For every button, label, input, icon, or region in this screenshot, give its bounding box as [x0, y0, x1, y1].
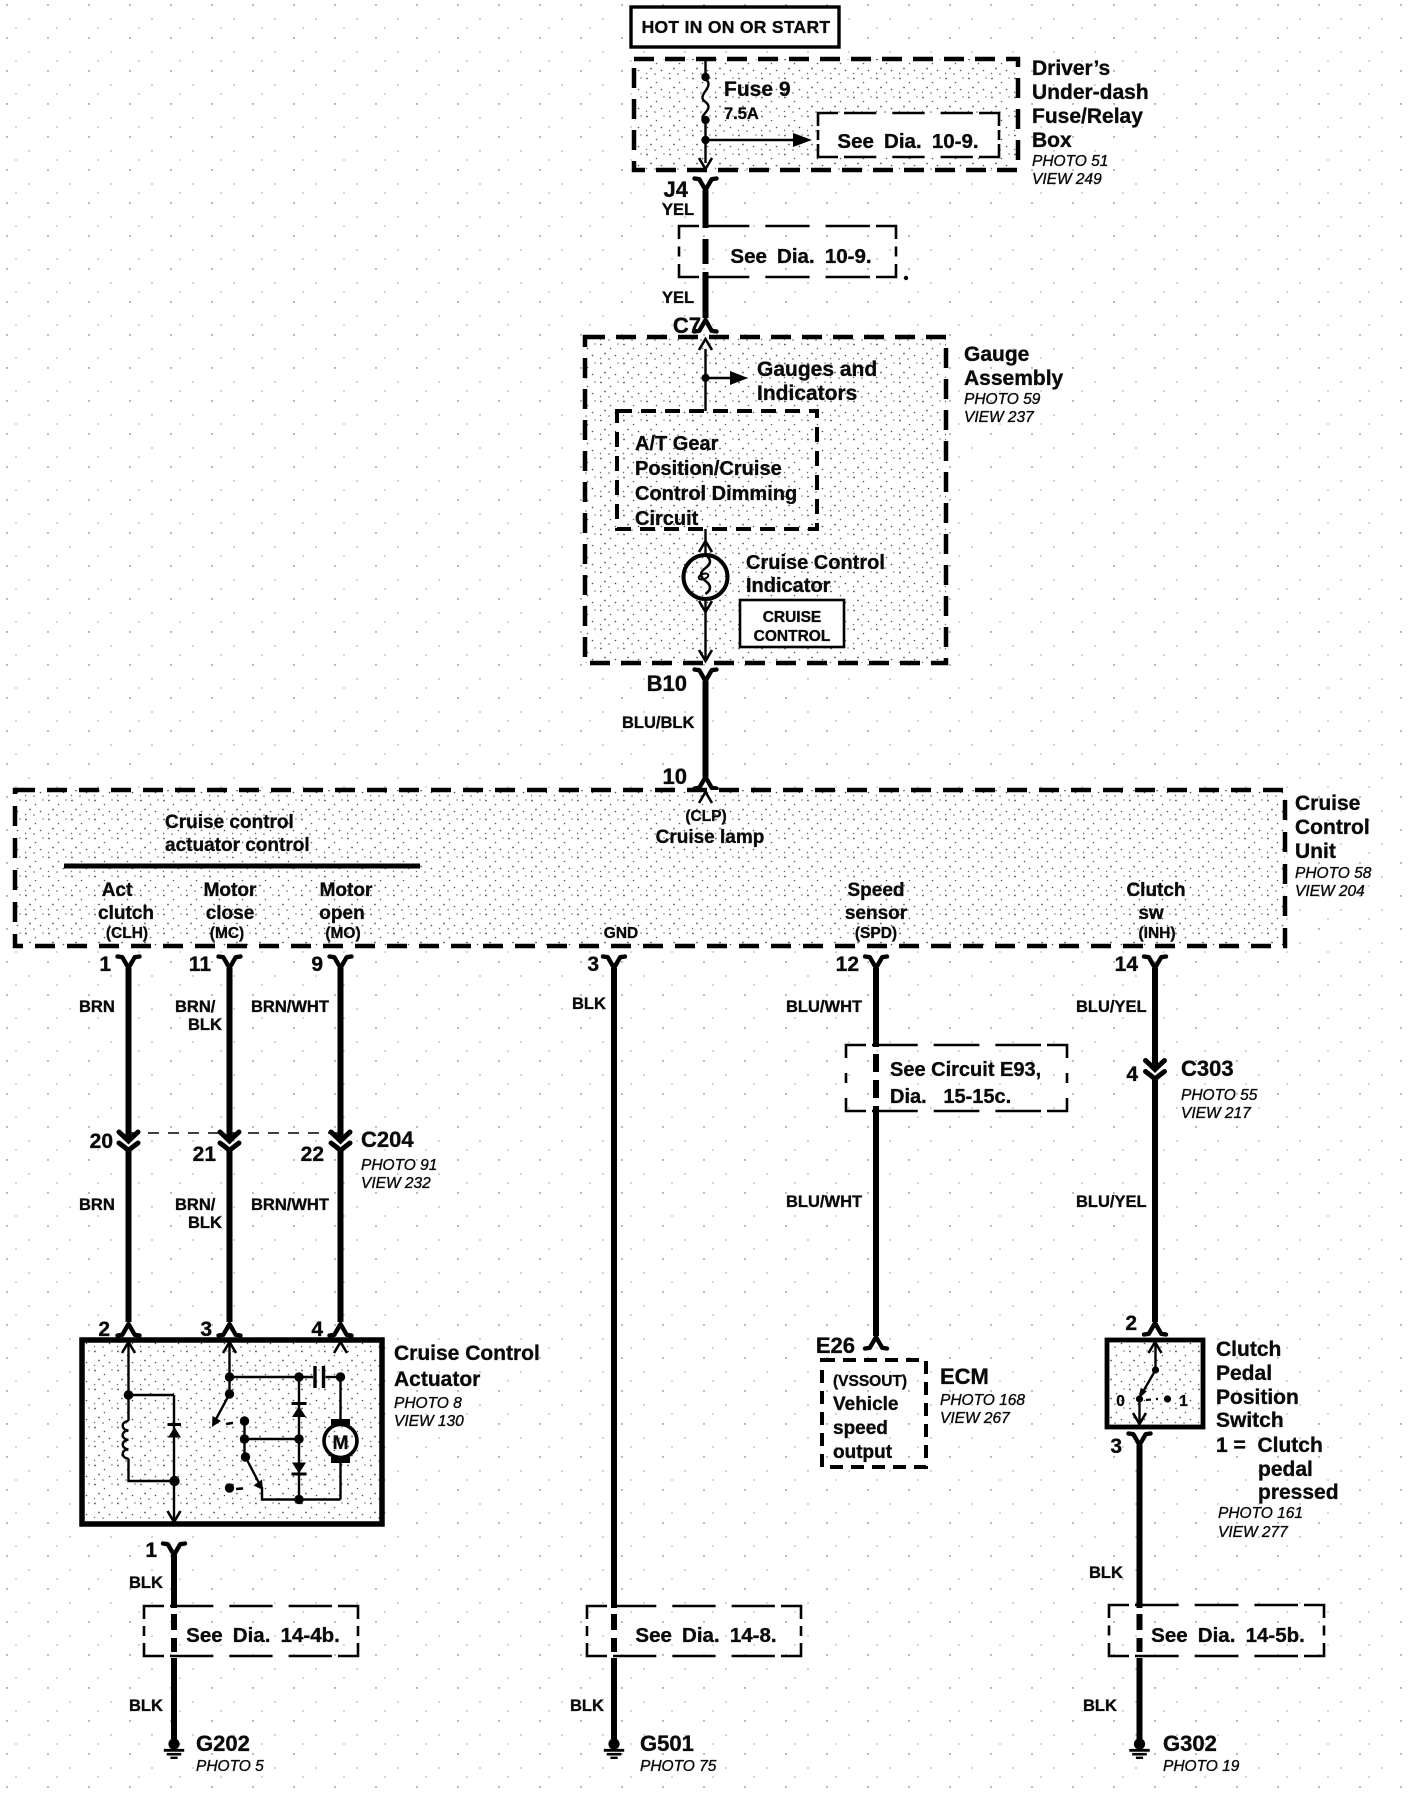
svg-text:Gauges and: Gauges and — [757, 358, 877, 381]
wire: top rail to capacitor — [230, 1376, 314, 1378]
svg-text:output: output — [833, 1442, 893, 1463]
svg-text:G501: G501 — [640, 1731, 694, 1756]
svg-text:Position/Cruise: Position/Cruise — [635, 458, 782, 480]
svg-text:J4: J4 — [664, 177, 689, 202]
svg-text:BLU/YEL: BLU/YEL — [1076, 998, 1147, 1016]
lamp: cruise control indicator — [684, 555, 728, 599]
wire: branch arrow to gauges — [706, 371, 749, 385]
wire: S2 to bottom rail — [262, 1487, 341, 1500]
svg-text:1: 1 — [99, 953, 111, 976]
connector C204 pin 22 — [301, 1132, 350, 1166]
connector pin 11 at CCU — [189, 953, 241, 976]
node: gauges branch — [702, 374, 710, 382]
label: Gauge Assembly PHOTO 59 VIEW 237 — [964, 343, 1064, 426]
node: diode branch top — [294, 1372, 303, 1381]
wire: entry arrow into gauge assembly — [699, 339, 712, 350]
svg-text:pressed: pressed — [1258, 1481, 1339, 1504]
svg-text:PHOTO 168: PHOTO 168 — [940, 1392, 1025, 1409]
label box: CRUISE CONTROL — [740, 600, 844, 647]
wire: actuator pin1 to G202 (BLK) — [171, 1555, 177, 1740]
wire: exit arrow from switch — [1133, 1413, 1146, 1424]
wire: fuse to branch — [704, 120, 706, 163]
svg-text:PHOTO 58: PHOTO 58 — [1295, 865, 1372, 882]
svg-text:See Dia. 14-4b.: See Dia. 14-4b. — [186, 1624, 340, 1647]
svg-text:See Dia. 14-5b.: See Dia. 14-5b. — [1151, 1624, 1305, 1647]
label: Clutch Pedal Position Switch — [1216, 1338, 1339, 1541]
svg-text:E26: E26 — [816, 1333, 855, 1358]
svg-text:VIEW 232: VIEW 232 — [361, 1175, 431, 1192]
svg-text:20: 20 — [90, 1130, 113, 1153]
svg-text:YEL: YEL — [662, 201, 694, 219]
svg-text:VIEW 249: VIEW 249 — [1032, 171, 1102, 188]
svg-text:PHOTO 19: PHOTO 19 — [1163, 1758, 1240, 1775]
svg-text:Box: Box — [1032, 129, 1072, 152]
connector B10 — [647, 670, 717, 697]
svg-text:(SPD): (SPD) — [855, 925, 897, 942]
svg-text:(CLH): (CLH) — [106, 925, 148, 942]
node: branch to see-dia — [701, 136, 709, 144]
svg-text:PHOTO 59: PHOTO 59 — [964, 391, 1041, 408]
svg-text:BLK: BLK — [1083, 1697, 1117, 1715]
connector actuator pin 3 — [200, 1318, 240, 1341]
svg-text:(CLP): (CLP) — [685, 808, 726, 825]
node: top rail at pin4 wire — [336, 1372, 345, 1381]
connector actuator pin 2 — [98, 1318, 139, 1341]
svg-text:Actuator: Actuator — [394, 1368, 480, 1391]
svg-text:Motor: Motor — [320, 880, 373, 901]
svg-text:Circuit: Circuit — [635, 508, 699, 530]
svg-text:HOT IN ON OR START: HOT IN ON OR START — [642, 17, 831, 37]
wire: coil bottom — [129, 1459, 175, 1482]
svg-text:Vehicle: Vehicle — [833, 1394, 899, 1415]
reference box: See Dia. 14-4b — [144, 1606, 358, 1656]
connector pin 3 at CCU — [587, 953, 625, 976]
svg-text:(MC): (MC) — [210, 925, 244, 942]
wire: J4 to C7 (YEL) — [703, 190, 709, 318]
label: Driver's Under-dash Fuse/Relay Box PHOTO 51 VIEW 249 — [1032, 57, 1149, 188]
node: mid rail left — [240, 1434, 249, 1443]
svg-text:BLU/WHT: BLU/WHT — [786, 1193, 862, 1211]
svg-text:YEL: YEL — [662, 289, 694, 307]
connector chevron above lamp — [699, 541, 712, 552]
svg-text:Position: Position — [1216, 1386, 1299, 1409]
wire: entry arrows into actuator — [122, 1342, 135, 1353]
svg-text:Cruise Control: Cruise Control — [394, 1342, 540, 1365]
connector pin 10 at CCU — [695, 777, 717, 789]
node: fuse top — [701, 73, 709, 81]
svg-text:BLK: BLK — [188, 1016, 222, 1034]
svg-text:C7: C7 — [673, 313, 701, 338]
svg-text:BLU/BLK: BLU/BLK — [622, 714, 694, 732]
wire: entry arrow into CCU — [699, 792, 712, 803]
wire: CCU pin3 to G501 (BLK) — [611, 968, 617, 1740]
svg-text:22: 22 — [301, 1143, 324, 1166]
svg-text:(INH): (INH) — [1138, 925, 1175, 942]
fuse F9 element — [702, 79, 708, 121]
wire: S1 contact down — [243, 1421, 245, 1457]
svg-text:Fuse/Relay: Fuse/Relay — [1032, 105, 1143, 128]
connector actuator pin 4 — [311, 1318, 351, 1341]
switch S1 (upper, hold) — [212, 1389, 249, 1427]
wire: exit arrow from gauge assembly — [699, 650, 712, 661]
connector C204 pin 21 — [193, 1132, 239, 1166]
svg-text:PHOTO 91: PHOTO 91 — [361, 1157, 437, 1174]
clutch pedal position switch box — [1107, 1340, 1203, 1427]
svg-text:7.5A: 7.5A — [724, 105, 759, 123]
svg-text:BLK: BLK — [129, 1697, 163, 1715]
wire: down to actuator pin1 — [173, 1480, 175, 1524]
diode D2 (up, on branch) — [292, 1377, 307, 1439]
wire: entry arrow into switch — [1149, 1342, 1162, 1353]
svg-text:VIEW 217: VIEW 217 — [1181, 1105, 1252, 1122]
svg-text:open: open — [319, 903, 364, 924]
label: ECM PHOTO 168 VIEW 267 — [940, 1364, 1025, 1427]
svg-text:Fuse 9: Fuse 9 — [724, 78, 791, 101]
gauge assembly box — [585, 337, 946, 663]
capacitor C1 — [315, 1366, 341, 1388]
label: Motor close (MC) — [204, 880, 257, 942]
connector C204 dashed separation line — [128, 1132, 352, 1134]
label: Cruise Control Indicator — [746, 552, 885, 597]
svg-text:21: 21 — [193, 1143, 217, 1166]
label: Fuse 9 7.5A — [724, 78, 791, 123]
svg-text:Indicators: Indicators — [757, 382, 857, 405]
svg-text:12: 12 — [836, 953, 859, 976]
label: BRN/BLK — [175, 1196, 222, 1232]
svg-text:Under-dash: Under-dash — [1032, 81, 1149, 104]
reference box: See Circuit E93 Dia 15-15c — [846, 1045, 1067, 1111]
ground G501 — [604, 1731, 717, 1775]
wire: switch pin3 to G302 (BLK) — [1137, 1445, 1143, 1740]
connector pin 14 at CCU — [1115, 953, 1166, 976]
svg-text:BRN/: BRN/ — [175, 998, 216, 1016]
node: pin3 branch — [225, 1372, 234, 1381]
svg-text:VIEW 237: VIEW 237 — [964, 409, 1035, 426]
svg-text:3: 3 — [587, 953, 599, 976]
wire: CCU pin12 to E26 (BLU/WHT) — [873, 968, 879, 1336]
svg-text:M: M — [333, 1433, 349, 1454]
wire: C204 pin20 to actuator pin2 (BRN) — [126, 1147, 132, 1322]
svg-text:VIEW 204: VIEW 204 — [1295, 883, 1365, 900]
wire: C204 pin21 to actuator pin3 (BRN/BLK) — [227, 1147, 233, 1322]
connector pin 12 at CCU — [836, 953, 887, 976]
wire: CCU pin9 to C204 pin22 (BRN/WHT) — [338, 968, 344, 1140]
wire: C303 to clutch switch pin2 (BLU/YEL) — [1152, 1076, 1158, 1323]
switch S2 (lower, release) — [225, 1452, 263, 1492]
label: Cruise Control Unit PHOTO 58 VIEW 204 — [1295, 792, 1372, 900]
svg-text:C204: C204 — [361, 1127, 414, 1152]
svg-text:BLU/WHT: BLU/WHT — [786, 998, 862, 1016]
svg-text:4: 4 — [1126, 1063, 1138, 1086]
wire: CCU pin1 to C204 pin20 (BRN) — [126, 968, 132, 1140]
connector C7 — [673, 313, 717, 338]
ECM box (VSSOUT vehicle speed output) — [822, 1360, 926, 1467]
connector chevron below lamp — [699, 601, 712, 612]
power label: HOT IN ON OR START — [631, 7, 839, 47]
wire: C7 to junction — [704, 349, 706, 411]
svg-text:Speed: Speed — [847, 880, 904, 901]
svg-text:Indicator: Indicator — [746, 575, 831, 597]
wire: CCU pin11 to C204 pin21 (BRN/BLK) — [227, 968, 233, 1140]
label: C204 PHOTO 91 VIEW 232 — [361, 1127, 437, 1192]
label: Act clutch (CLH) — [98, 880, 154, 942]
svg-text:BLK: BLK — [572, 995, 606, 1013]
label: Clutch sw (INH) — [1126, 880, 1185, 942]
fuse/relay box (Driver's Under-dash Fuse/Relay Box) — [634, 59, 1018, 170]
wire: HOT feed into fuse box — [704, 59, 706, 78]
svg-text:actuator control: actuator control — [165, 835, 310, 856]
wire: pin2 lead down — [127, 1340, 129, 1421]
svg-text:Motor: Motor — [204, 880, 257, 901]
connector E26 — [816, 1333, 887, 1358]
ground G302 — [1129, 1731, 1239, 1775]
wire: exit arrow from fuse box — [699, 158, 712, 169]
svg-text:BLK: BLK — [129, 1574, 163, 1592]
svg-text:Cruise control: Cruise control — [165, 812, 294, 833]
svg-text:Gauge: Gauge — [964, 343, 1029, 366]
svg-text:sw: sw — [1138, 903, 1164, 924]
wire: B10 to cruise control unit (BLU/BLK) — [703, 681, 709, 777]
svg-text:G302: G302 — [1163, 1731, 1217, 1756]
diode D3 (down, on branch) — [292, 1439, 307, 1500]
cruise control unit box — [15, 790, 1285, 946]
svg-text:BRN: BRN — [79, 1196, 115, 1214]
svg-text:A/T Gear: A/T Gear — [635, 433, 719, 455]
connector J4 — [664, 177, 717, 202]
svg-text:Pedal: Pedal — [1216, 1362, 1272, 1385]
svg-text:PHOTO 161: PHOTO 161 — [1218, 1505, 1303, 1522]
svg-text:BLK: BLK — [1089, 1564, 1123, 1582]
label: Cruise Control Actuator PHOTO 8 VIEW 130 — [394, 1342, 540, 1430]
reference box: See Dia. 10-9 (inside fuse box) — [818, 113, 999, 157]
svg-text:See Dia. 10-9.: See Dia. 10-9. — [837, 130, 978, 153]
wire: mid rail — [245, 1438, 300, 1440]
label: Gauges and Indicators — [757, 358, 877, 405]
cruise control actuator box — [82, 1340, 382, 1524]
svg-text:(VSSOUT): (VSSOUT) — [833, 1373, 907, 1390]
wire: dimming circuit to indicator lamp — [704, 529, 706, 555]
svg-text:Dia. 15-15c.: Dia. 15-15c. — [890, 1086, 1011, 1108]
svg-text:speed: speed — [833, 1418, 888, 1439]
switch S3 (clutch pedal position) — [1116, 1340, 1188, 1427]
node: coil top — [124, 1390, 134, 1400]
svg-text:CRUISE: CRUISE — [763, 609, 822, 626]
diode D1 (across coil) — [168, 1395, 182, 1480]
svg-text:Cruise lamp: Cruise lamp — [656, 827, 765, 848]
connector clutch switch pin 2 — [1125, 1312, 1166, 1335]
ground G202 — [164, 1731, 264, 1775]
svg-text:close: close — [206, 903, 255, 924]
svg-text:BRN: BRN — [79, 998, 115, 1016]
node: mid rail right — [294, 1434, 303, 1443]
svg-text:GND: GND — [604, 925, 638, 942]
svg-text:Cruise Control: Cruise Control — [746, 552, 885, 574]
svg-text:11: 11 — [189, 953, 212, 976]
coil L1 (clutch solenoid) — [123, 1421, 129, 1459]
wire: pin3 lead down — [228, 1340, 230, 1394]
svg-text:1: 1 — [1179, 1393, 1188, 1410]
svg-text:VIEW 267: VIEW 267 — [940, 1410, 1011, 1427]
svg-text:1: 1 — [145, 1539, 157, 1562]
wire: CCU pin14 to C303 (BLU/YEL) — [1152, 968, 1158, 1068]
svg-text:Clutch: Clutch — [1126, 880, 1185, 901]
label: Speed sensor (SPD) — [845, 880, 908, 942]
svg-text:B10: B10 — [647, 671, 687, 696]
svg-text:BLU/YEL: BLU/YEL — [1076, 1193, 1147, 1211]
svg-text:3: 3 — [1110, 1435, 1122, 1458]
connector C303 pin 4 — [1126, 1061, 1164, 1087]
wire: exit arrow actuator pin1 — [168, 1511, 181, 1522]
reference box: See Dia. 14-5b — [1109, 1605, 1324, 1656]
svg-text:Cruise: Cruise — [1295, 792, 1360, 815]
svg-text:1 = Clutch: 1 = Clutch — [1216, 1434, 1323, 1457]
svg-text:BLK: BLK — [188, 1214, 222, 1232]
svg-text:2: 2 — [1125, 1312, 1137, 1335]
wire: coil top to diode top — [129, 1394, 175, 1396]
A/T gear dimming circuit box — [617, 411, 817, 530]
bracket line under actuator control — [64, 864, 420, 869]
svg-text:14: 14 — [1115, 953, 1139, 976]
label: Motor open (MO) — [319, 880, 373, 942]
svg-text:Switch: Switch — [1216, 1409, 1284, 1432]
svg-text:BRN/: BRN/ — [175, 1196, 216, 1214]
node: fuse bottom — [701, 116, 709, 124]
wire: lamp to box bottom — [704, 599, 706, 661]
svg-text:Assembly: Assembly — [964, 367, 1064, 390]
svg-text:Control: Control — [1295, 816, 1370, 839]
svg-text:G202: G202 — [196, 1731, 250, 1756]
node: bottom rail at diode branch — [294, 1495, 303, 1504]
connector actuator pin 1 — [145, 1539, 185, 1562]
svg-text:0: 0 — [1116, 1393, 1125, 1410]
svg-text:9: 9 — [311, 953, 323, 976]
svg-text:PHOTO 51: PHOTO 51 — [1032, 153, 1108, 170]
connector pin 1 at CCU — [99, 953, 139, 976]
label: BRN/BLK — [175, 998, 222, 1034]
svg-text:PHOTO 8: PHOTO 8 — [394, 1395, 462, 1412]
wire: branch arrow to See Dia 10-9 — [706, 133, 813, 147]
svg-text:BRN/WHT: BRN/WHT — [251, 998, 329, 1016]
reference box: See Dia. 10-9 (mid) — [679, 226, 908, 280]
label: (CLP) Cruise lamp — [656, 808, 765, 848]
svg-text:PHOTO 5: PHOTO 5 — [196, 1758, 264, 1775]
svg-text:10: 10 — [663, 764, 687, 789]
reference box: See Dia. 14-8 — [587, 1606, 801, 1656]
svg-text:Clutch: Clutch — [1216, 1338, 1281, 1361]
svg-text:pedal: pedal — [1258, 1458, 1313, 1481]
svg-text:Control Dimming: Control Dimming — [635, 483, 797, 505]
svg-text:PHOTO 55: PHOTO 55 — [1181, 1087, 1258, 1104]
motor M1 — [324, 1377, 357, 1500]
svg-text:Driver’s: Driver’s — [1032, 57, 1110, 80]
svg-text:See Circuit E93,: See Circuit E93, — [890, 1059, 1041, 1081]
svg-text:clutch: clutch — [98, 903, 154, 924]
connector C204 pin 20 — [90, 1130, 138, 1153]
wire: C204 pin22 to actuator pin4 (BRN/WHT) — [338, 1147, 344, 1322]
svg-text:PHOTO 75: PHOTO 75 — [640, 1758, 717, 1775]
svg-text:C303: C303 — [1181, 1056, 1234, 1081]
svg-text:CONTROL: CONTROL — [754, 628, 831, 645]
svg-text:ECM: ECM — [940, 1364, 989, 1389]
svg-text:BRN/WHT: BRN/WHT — [251, 1196, 329, 1214]
label: Cruise control actuator control — [165, 812, 310, 856]
connector clutch switch pin 3 — [1110, 1434, 1150, 1459]
svg-text:See Dia. 10-9.: See Dia. 10-9. — [730, 245, 871, 268]
svg-text:See Dia. 14-8.: See Dia. 14-8. — [635, 1624, 776, 1647]
svg-text:VIEW 277: VIEW 277 — [1218, 1524, 1289, 1541]
svg-text:sensor: sensor — [845, 903, 908, 924]
svg-text:Unit: Unit — [1295, 840, 1336, 863]
svg-text:(MO): (MO) — [325, 925, 360, 942]
svg-text:Act: Act — [102, 880, 133, 901]
node: coil/diode bottom — [169, 1476, 179, 1486]
svg-text:BLK: BLK — [570, 1697, 604, 1715]
connector pin 9 at CCU — [311, 953, 351, 976]
label: C303 PHOTO 55 VIEW 217 — [1181, 1056, 1258, 1122]
svg-text:VIEW 130: VIEW 130 — [394, 1413, 464, 1430]
